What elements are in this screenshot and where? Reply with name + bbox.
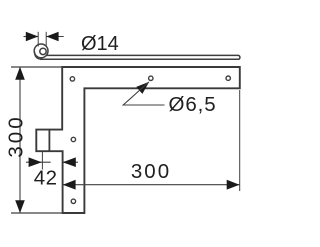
leader Ø6,5 arrow (points at middle hole) — [136, 82, 149, 94]
horizontal 300 right extension line — [239, 90, 241, 191]
dimension Ø14 extension line right — [45, 32, 47, 47]
strap curl inner spiral circle — [40, 48, 46, 54]
leader Ø6,5 shaft — [123, 82, 164, 105]
dimension 42 extension line — [41, 152, 43, 170]
dimension Ø14 right arrow — [46, 32, 58, 42]
hole, flange left — [70, 77, 74, 81]
vertical 300 dimension line — [19, 67, 21, 213]
horizontal 300 right arrow — [227, 180, 240, 190]
strap curl bottom-left transition to strap — [34, 52, 42, 60]
svg-text:300: 300 — [5, 114, 28, 157]
vertical 300 bottom arrow — [15, 200, 25, 213]
horizontal 300 left arrow — [63, 180, 76, 190]
strap curl (rolled eye, left end) outer circle — [34, 44, 48, 58]
L-shaped hinge plate outline with cranked tab — [36, 67, 240, 213]
horizontal 300 dimension line — [63, 184, 240, 186]
svg-text:42: 42 — [34, 167, 58, 190]
svg-text:Ø6,5: Ø6,5 — [169, 93, 217, 116]
hole, flange right — [226, 76, 230, 80]
dimension Ø14 extension line left — [37, 32, 39, 47]
svg-text:300: 300 — [131, 160, 171, 183]
dimension 42 right tail line — [63, 161, 78, 163]
hinge strap (top horizontal bar with rounded right end) — [40, 55, 240, 59]
hole, flange middle (leader target) — [149, 76, 153, 80]
vertical 300 bottom extension line — [11, 212, 63, 214]
hole, leg upper — [71, 137, 75, 141]
dimension Ø14 right tail line — [46, 36, 64, 38]
dimension Ø14 left tail line — [24, 36, 39, 38]
svg-text:Ø14: Ø14 — [81, 33, 119, 55]
dimension 42 left arrow — [29, 157, 42, 167]
tab inner bend line — [48, 130, 50, 152]
vertical 300 top extension line — [11, 66, 62, 68]
dimension Ø14 left arrow — [26, 32, 38, 42]
vertical 300 top arrow — [15, 67, 25, 80]
dimension 42 left tail line — [26, 161, 51, 163]
dimension 42 right arrow — [63, 157, 76, 167]
hole, leg lower — [71, 199, 75, 203]
